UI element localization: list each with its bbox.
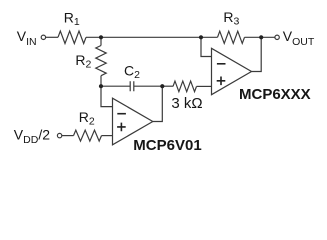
wire R2 bottom to U1 plus input [102,135,113,137]
junction node C [259,35,263,39]
junction node B [199,35,203,39]
junction node A [99,35,103,39]
junction node X [99,84,103,88]
op-amp U1 MCP6V01 [113,98,153,145]
svg-text:3 kΩ: 3 kΩ [171,95,202,112]
svg-text:R1: R1 [64,10,80,29]
svg-text:R3: R3 [223,9,239,28]
U2 minus symbol [217,63,226,65]
svg-text:C2: C2 [124,62,140,81]
wire U2 output up to node C [252,37,262,71]
wire top rail A to B to R3 [86,36,218,38]
wire R3 to VOUT [245,36,275,38]
wire node X to C2 [101,85,130,87]
wire node B down to U2 minus input [201,37,212,56]
op-amp U2 MCP6XXX [212,48,252,94]
wire node X down to U1 minus input [101,86,113,106]
wire R2 to node X [100,76,102,87]
node VOUT terminal [275,35,279,39]
U1 plus symbol [117,123,126,132]
resistor R3 [218,31,245,43]
resistor 3k [173,81,197,92]
resistor R1 [58,31,86,43]
node VIN terminal [41,35,45,39]
svg-text:R2: R2 [79,109,95,128]
capacitor C2 [130,81,162,91]
resistor R2 top [96,46,106,76]
svg-text:VIN: VIN [17,28,37,48]
wire node A down to R2 [100,37,102,45]
resistor R2 bottom [74,130,102,141]
junction node Y [160,84,164,88]
U2 plus symbol [217,77,226,86]
wire 3k to U2 plus input [197,85,212,87]
wire U1 output up to node Y [153,86,163,121]
U1 minus symbol [117,113,126,115]
wire node Y to 3k resistor [162,85,173,87]
svg-text:MCP6V01: MCP6V01 [133,137,201,154]
wire VDD to R2 bottom [62,135,74,137]
svg-text:MCP6XXX: MCP6XXX [239,86,311,103]
node VDD terminal [57,133,61,137]
svg-text:VOUT: VOUT [283,28,315,48]
svg-text:VDD/2: VDD/2 [14,126,50,146]
svg-text:R2: R2 [75,52,91,71]
wire VIN to R1 [46,36,58,38]
